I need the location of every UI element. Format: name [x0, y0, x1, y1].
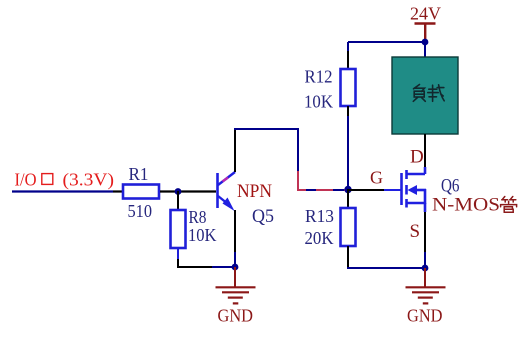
svg-text:G: G: [370, 168, 383, 188]
svg-text:510: 510: [128, 201, 153, 221]
svg-text:Q6: Q6: [441, 176, 460, 197]
svg-text:S: S: [410, 221, 421, 242]
svg-text:R13: R13: [305, 206, 334, 226]
svg-text:GND: GND: [218, 306, 254, 326]
svg-text:10K: 10K: [188, 225, 217, 245]
svg-text:24V: 24V: [410, 4, 441, 24]
svg-text:Q5: Q5: [252, 206, 274, 227]
svg-text:10K: 10K: [304, 92, 333, 112]
svg-text:D: D: [410, 147, 424, 168]
svg-text:NPN: NPN: [237, 181, 272, 202]
svg-text:R12: R12: [305, 67, 333, 87]
svg-text:GND: GND: [407, 306, 443, 326]
svg-text:R1: R1: [129, 164, 149, 184]
svg-text:N-MOS: N-MOS: [432, 195, 500, 216]
svg-text:20K: 20K: [305, 228, 334, 248]
svg-text:(3.3V): (3.3V): [63, 170, 115, 190]
svg-text:I/O: I/O: [15, 170, 37, 190]
svg-text:R8: R8: [189, 207, 207, 227]
